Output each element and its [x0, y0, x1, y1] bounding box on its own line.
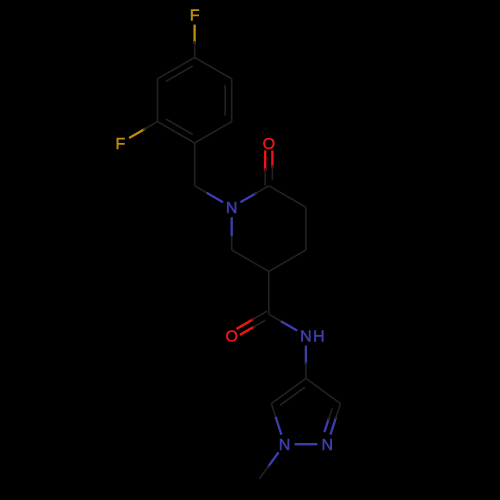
- svg-text:O: O: [263, 136, 275, 153]
- svg-text:O: O: [225, 328, 237, 345]
- svg-text:N: N: [300, 328, 312, 345]
- svg-text:N: N: [279, 437, 291, 454]
- svg-text:F: F: [116, 136, 126, 153]
- svg-text:F: F: [190, 7, 200, 24]
- svg-text:N: N: [322, 437, 334, 454]
- svg-text:H: H: [313, 328, 325, 345]
- svg-text:N: N: [226, 200, 238, 217]
